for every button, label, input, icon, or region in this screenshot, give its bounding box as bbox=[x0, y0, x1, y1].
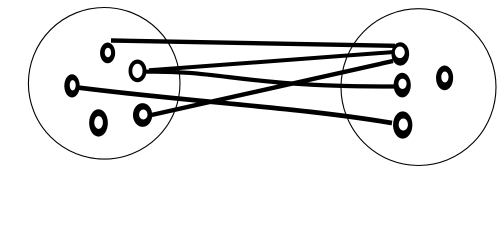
node B2 bbox=[394, 73, 411, 98]
node B4 bbox=[436, 66, 453, 91]
wire A3-B3 bbox=[79, 88, 392, 123]
node A1 bbox=[100, 43, 115, 64]
set A ellipse (left domain) bbox=[28, 8, 180, 160]
node A5 bbox=[133, 103, 152, 127]
node A2 bbox=[129, 60, 147, 83]
node B1 bbox=[391, 42, 409, 65]
wire A5-B1 bbox=[147, 61, 393, 116]
node A3 bbox=[64, 74, 79, 97]
set B ellipse (right codomain) bbox=[341, 9, 496, 166]
wire A1-B1 bbox=[111, 41, 395, 46]
wire A2-B1 bbox=[149, 52, 394, 70]
node A4 bbox=[89, 109, 108, 136]
node B3 bbox=[393, 111, 412, 138]
wire A2-B2 bbox=[145, 72, 395, 87]
